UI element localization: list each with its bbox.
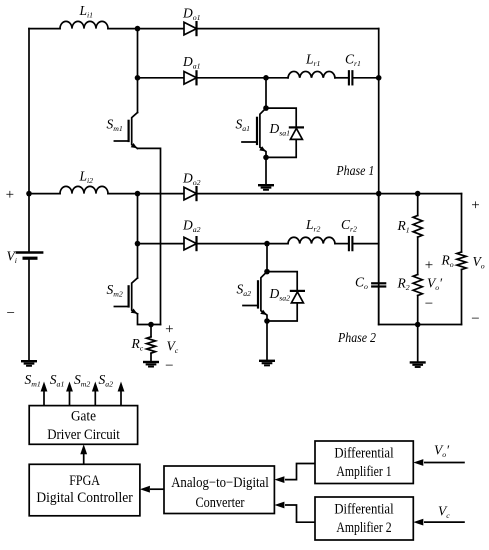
diode Da2	[184, 237, 197, 250]
wire: Lr2 branch lead	[267, 243, 288, 245]
wire: Co rail lower	[378, 288, 380, 325]
wire: Dsa2 top branch	[267, 272, 297, 291]
inductor Li2	[60, 186, 108, 193]
svg-text:Amplifier 2: Amplifier 2	[336, 520, 391, 536]
wire: Lr1 branch lead	[266, 77, 288, 79]
arrow: DiffAmp1 to ADC	[274, 476, 284, 483]
ground: output	[411, 362, 425, 367]
node: Sa2 drain / Dsa2	[264, 269, 270, 275]
ground: Rc	[144, 362, 158, 367]
wire: Sa1 drain drop	[265, 78, 267, 108]
svg-text:Phase 2: Phase 2	[337, 330, 376, 345]
node: Cr1 to rail	[376, 75, 382, 81]
wire: Sm1 source elbow down to Rc node	[138, 148, 161, 324]
block: Differential Amplifier 1	[315, 441, 413, 484]
svg-text:Vo′: Vo′	[427, 276, 443, 293]
wire: Da1 row left	[138, 77, 185, 79]
arrow: ADC to FPGA	[140, 486, 164, 493]
wire: Cr1 to right rail	[354, 77, 379, 79]
svg-text:−: −	[471, 311, 479, 327]
svg-text:−: −	[425, 296, 433, 312]
node: Da1 branch	[135, 75, 141, 81]
svg-text:+: +	[165, 322, 173, 338]
wire: Da2 row left	[138, 243, 185, 245]
node: R1 top	[415, 191, 421, 197]
wire: Sa1 source to ground	[265, 157, 267, 185]
arrow: Sm1 gate output	[41, 382, 48, 406]
wire: Cr2 to right rail	[354, 243, 379, 245]
arrow: DiffAmp2 to ADC	[274, 502, 284, 509]
diode Dsa1	[290, 127, 303, 139]
node: Lr1-Sa1 branch	[263, 75, 269, 81]
svg-text:+: +	[471, 198, 479, 214]
wire: row2 Do2 to Ro corner	[197, 193, 462, 195]
inductor Li1	[60, 21, 108, 28]
node: Li2-Do2 junction	[135, 191, 141, 197]
diode Dsa2	[291, 291, 304, 303]
node: Sa2 source / Dsa2	[264, 318, 270, 324]
wire: drop from node A1 to Sm1 drain	[137, 29, 139, 113]
svg-text:+: +	[6, 187, 14, 203]
capacitor Cr1	[349, 71, 353, 84]
node: output ground junction	[415, 322, 421, 328]
transistor Sa2	[243, 272, 267, 321]
wire: Lr2 to Cr2	[335, 243, 348, 245]
capacitor Cr2	[349, 237, 353, 250]
node: Lr2-Sa2 branch	[264, 241, 270, 247]
wire: Ro rail lower	[461, 270, 463, 325]
svg-text:Analog−to−Digital: Analog−to−Digital	[171, 475, 269, 491]
node: Li1-Do1 junction	[135, 26, 141, 32]
svg-text:Driver Circuit: Driver Circuit	[47, 427, 120, 443]
wire: right rail	[378, 29, 380, 325]
arrow: FPGA to Gate Driver	[80, 444, 87, 464]
arrow: Sm2 gate output	[92, 382, 99, 406]
node: Da2 branch	[135, 241, 141, 247]
inductor Lr1	[288, 71, 335, 77]
wire: left input rail lower	[28, 258, 30, 361]
diode Do1	[184, 22, 197, 35]
wire: Lr1 to Cr1	[335, 77, 348, 79]
svg-text:Converter: Converter	[196, 495, 245, 511]
wire: DiffAmp1 output elbow	[285, 464, 315, 480]
resistor R2	[413, 275, 422, 296]
diode Do2	[184, 187, 197, 200]
wire: R1 to R2	[417, 237, 419, 274]
wire: output bottom row	[379, 324, 462, 326]
transistor Sm1	[114, 113, 137, 149]
svg-text:Differential: Differential	[334, 445, 393, 461]
block: Differential Amplifier 2	[315, 497, 413, 540]
svg-text:+: +	[425, 257, 433, 273]
node: Sa1 drain / Dsa1	[263, 105, 269, 111]
wire: Da1 row right	[197, 77, 267, 79]
block: FPGA Digital Controller	[29, 464, 140, 516]
block: Analog-to-Digital Converter	[164, 466, 274, 514]
wire: Dsa1 bottom branch	[266, 139, 296, 157]
wire: Co rail upper	[378, 194, 380, 283]
arrow: Sa2 gate output	[118, 382, 125, 406]
wire: Rc top lead	[150, 325, 152, 337]
wire: left input rail upper	[28, 29, 30, 253]
svg-text:Differential: Differential	[334, 502, 393, 518]
arrow: Sa1 gate output	[66, 382, 73, 406]
diode Da1	[184, 71, 197, 84]
wire: drop from node A2 to Sm2 drain	[137, 194, 139, 278]
svg-text:Digital Controller: Digital Controller	[36, 490, 132, 506]
wire: Rc bottom lead	[150, 353, 152, 362]
svg-text:Gate: Gate	[71, 408, 96, 424]
ground: phase 1	[259, 185, 273, 190]
node: Vi plus / row2	[26, 191, 32, 197]
wire: row2 left segment	[29, 193, 60, 195]
arrow: Vc input to DiffAmp2	[413, 519, 465, 526]
wire: top row Li1 to Do1	[108, 28, 184, 30]
svg-text:FPGA: FPGA	[69, 473, 100, 489]
resistor Rc	[147, 337, 156, 353]
voltage source Vi	[17, 253, 42, 259]
wire: Da2 row right	[197, 243, 268, 245]
wire: R1 top lead	[417, 194, 419, 216]
wire: DiffAmp2 output elbow	[285, 505, 315, 522]
node: Sa1 source / Dsa1	[263, 155, 269, 161]
resistor Ro	[457, 252, 466, 269]
svg-text:Vo′: Vo′	[434, 443, 450, 460]
capacitor Co	[372, 283, 385, 286]
ground: input source	[22, 361, 36, 366]
node: Rc junction	[148, 322, 154, 328]
ground: phase 2	[260, 361, 274, 366]
svg-text:−: −	[165, 358, 173, 374]
wire: R2 bottom to ground	[417, 296, 419, 363]
wire: Dsa2 bottom branch	[267, 303, 297, 321]
arrow: Vo' input to DiffAmp1	[413, 459, 465, 466]
block: Gate Driver Circuit	[29, 406, 137, 445]
wire: row2 Li2 to Do2	[108, 193, 184, 195]
svg-text:Amplifier 1: Amplifier 1	[336, 464, 391, 480]
wire: Sa2 drain drop	[266, 244, 268, 272]
transistor Sa1	[242, 108, 266, 157]
wire: Dsa1 top branch	[266, 108, 296, 127]
wire: Ro rail upper	[461, 194, 463, 252]
wire: top row Do1 to right rail	[197, 28, 379, 30]
transistor Sm2	[114, 278, 137, 314]
node: rail crossing row2	[376, 191, 382, 197]
svg-text:−: −	[6, 306, 14, 322]
wire: top row left segment	[29, 28, 60, 30]
inductor Lr2	[288, 237, 335, 243]
svg-text:Phase 1: Phase 1	[336, 163, 375, 178]
wire: Sm2 source to Rc node row	[138, 314, 161, 325]
wire: Sa2 source to ground	[266, 321, 268, 361]
resistor R1	[413, 216, 422, 238]
